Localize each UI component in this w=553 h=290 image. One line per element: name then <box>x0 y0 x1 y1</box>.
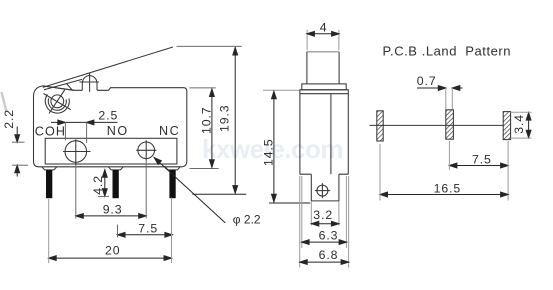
body (side view) outline <box>34 86 187 167</box>
flange <box>302 84 346 90</box>
svg-text:4: 4 <box>320 20 328 34</box>
bottom tab pin2 <box>108 167 123 170</box>
svg-text:9.3: 9.3 <box>103 202 123 216</box>
lever bottom line <box>44 79 82 89</box>
svg-text:COH: COH <box>35 124 66 138</box>
dim 7.5 (pcb) <box>449 165 508 167</box>
labels left view <box>35 124 180 138</box>
inner rectangle <box>45 138 177 164</box>
plunger cross horizontal <box>79 81 99 83</box>
svg-text:2.5: 2.5 <box>98 109 118 123</box>
svg-text:P.C.B .Land Pattern: P.C.B .Land Pattern <box>383 43 512 58</box>
pad left <box>377 111 383 141</box>
dim 6.3 <box>301 176 303 248</box>
svg-text:7.5: 7.5 <box>138 221 158 235</box>
pin hole cross <box>315 190 330 192</box>
pin hole circle <box>317 185 328 196</box>
pins black <box>46 170 176 198</box>
svg-text:10.7: 10.7 <box>200 106 214 134</box>
center line <box>370 124 504 126</box>
leader phi2.2 <box>154 158 225 223</box>
svg-text:19.3: 19.3 <box>218 104 232 132</box>
button front <box>307 52 339 84</box>
pin 3 <box>169 170 175 198</box>
lever curl inner arc <box>48 98 66 110</box>
pin 1 <box>46 170 52 198</box>
svg-text:4.2: 4.2 <box>91 175 105 195</box>
lever curl outer arc <box>45 94 69 113</box>
pad middle <box>446 110 454 139</box>
COM cross vertical <box>75 139 77 165</box>
dim 6.8 <box>299 176 301 268</box>
svg-text:3.4: 3.4 <box>512 114 526 134</box>
dim 9.3 <box>76 215 146 217</box>
dim 7.5 (left view) <box>118 234 173 236</box>
body cap seam <box>300 93 348 95</box>
COM terminal circle <box>65 141 87 163</box>
svg-text:3.2: 3.2 <box>313 208 333 222</box>
NC cross vertical <box>145 140 147 160</box>
dim 14.5 <box>263 89 300 91</box>
hinge cross diag1 <box>44 94 71 110</box>
hinge cross diag2 <box>49 90 65 114</box>
dim 4 <box>306 30 308 51</box>
body top edge slant <box>43 86 74 90</box>
dim 3.2 <box>310 201 312 226</box>
plunger cross vertical <box>89 73 91 92</box>
hinge pin circle <box>51 95 64 108</box>
dim 10.7 <box>190 87 216 89</box>
svg-text:14.5: 14.5 <box>261 138 275 166</box>
pad right <box>503 112 510 140</box>
NC terminal circle <box>138 142 155 159</box>
plunger dome <box>82 76 97 91</box>
dim 0.7 <box>417 87 446 89</box>
bottom tab pin3 <box>165 167 180 170</box>
dim 2.5 ext lines <box>64 122 66 140</box>
COM cross horizontal <box>63 151 91 153</box>
body panel split <box>330 94 332 175</box>
dim 2.2 (far left) <box>16 127 18 143</box>
watermark streak top-left <box>2 92 7 112</box>
svg-text:16.5: 16.5 <box>434 181 462 195</box>
dim 20 <box>49 257 172 259</box>
svg-text:20: 20 <box>105 244 120 258</box>
dim 2.5 line <box>51 121 118 123</box>
bottom tab pin1 <box>42 167 57 170</box>
svg-text:φ 2.2: φ 2.2 <box>233 213 261 227</box>
NC cross horizontal <box>136 149 156 151</box>
dim 4.2 <box>104 170 106 196</box>
lever top line <box>43 47 173 87</box>
svg-text:6.8: 6.8 <box>319 248 339 262</box>
hinge bracket edge <box>66 83 72 90</box>
dim 16.5 <box>380 194 508 196</box>
pin block front <box>311 174 339 201</box>
svg-text:7.5: 7.5 <box>472 152 492 166</box>
dim 19.3 <box>177 45 242 47</box>
body front <box>300 90 348 174</box>
pin 2 <box>113 170 119 198</box>
svg-text:0.7: 0.7 <box>417 74 437 88</box>
svg-text:2.2: 2.2 <box>2 109 16 129</box>
svg-text:NO: NO <box>107 124 129 138</box>
dim 3.4 <box>528 113 530 138</box>
svg-text:6.3: 6.3 <box>319 228 339 242</box>
svg-text:NC: NC <box>159 124 180 138</box>
